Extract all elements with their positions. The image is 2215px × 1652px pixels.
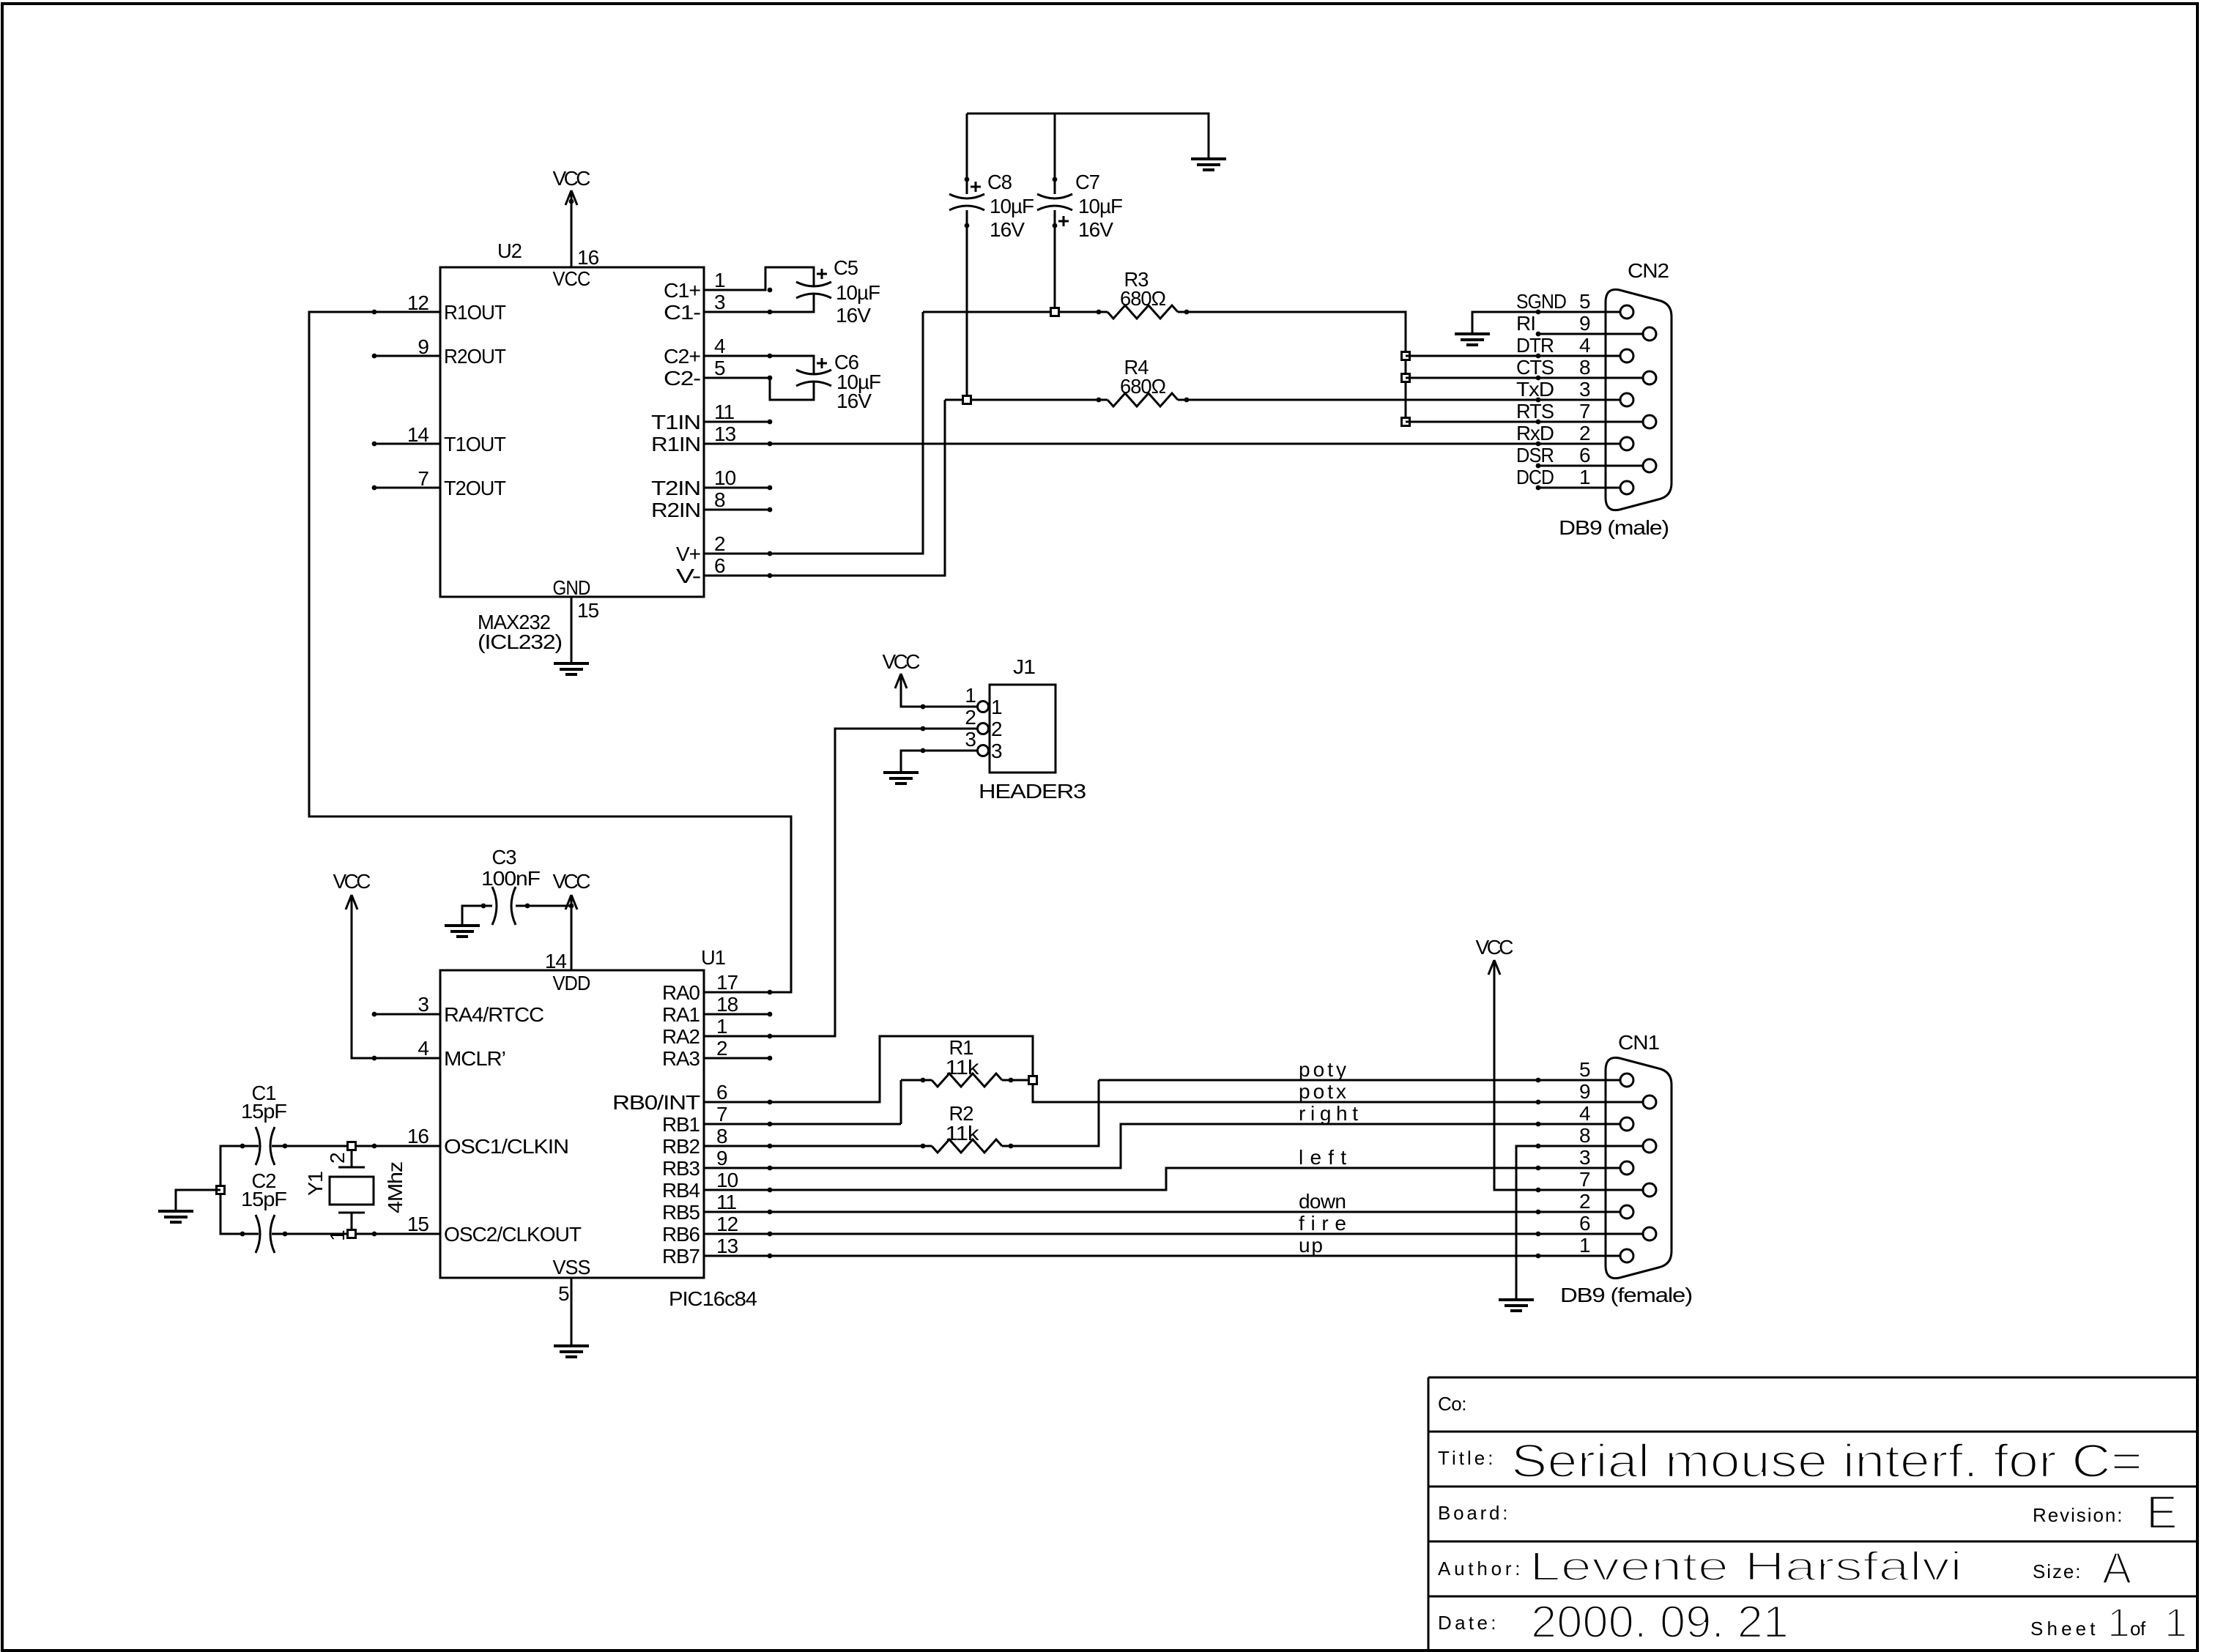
wire RTS	[1406, 421, 1643, 423]
svg-text:14: 14	[545, 950, 567, 972]
wire CN1 pin8 to ground	[1516, 1146, 1643, 1300]
wire VCC to CN1 pin7	[1494, 960, 1643, 1190]
svg-text:VCC: VCC	[553, 267, 591, 290]
svg-text:RxD: RxD	[1516, 422, 1554, 444]
svg-text:1: 1	[326, 1230, 349, 1241]
wire U1 VSS to ground	[571, 1278, 573, 1346]
svg-text:RB7: RB7	[662, 1245, 700, 1268]
svg-text:1: 1	[1579, 466, 1590, 488]
svg-text:5: 5	[1579, 1058, 1590, 1081]
svg-text:12: 12	[407, 291, 429, 314]
CN2 pin circle left column 3	[1620, 437, 1633, 450]
ground at U1 VSS	[554, 1346, 589, 1357]
svg-text:C7: C7	[1075, 171, 1099, 193]
svg-text:poty: poty	[1299, 1058, 1346, 1081]
svg-text:2: 2	[991, 718, 1002, 740]
svg-text:11: 11	[714, 401, 734, 423]
svg-text:17: 17	[716, 971, 738, 994]
wire C1- to C5	[704, 294, 814, 312]
svg-text:5: 5	[714, 357, 725, 379]
wire RB5 down	[704, 1211, 1620, 1213]
svg-text:C2-: C2-	[664, 367, 701, 390]
crystal Y1	[330, 1146, 374, 1234]
wire U2 pin11 T1IN stub	[704, 421, 770, 423]
wire RB6 fire	[704, 1233, 1643, 1235]
svg-text:18: 18	[716, 993, 738, 1016]
svg-text:R1IN: R1IN	[651, 433, 700, 455]
svg-text:GND: GND	[553, 576, 590, 599]
svg-text:11k: 11k	[946, 1122, 980, 1145]
resistor R3	[1107, 305, 1178, 319]
svg-text:PIC16c84: PIC16c84	[669, 1287, 757, 1310]
connector CN1 DB9 female body	[1606, 1057, 1672, 1278]
capacitor C1 plates	[256, 1127, 275, 1165]
wire OSC1 row	[220, 1146, 440, 1190]
wire capacitor C7 vertical	[1054, 114, 1056, 312]
wire RB4 left	[704, 1168, 1620, 1190]
svg-text:RI: RI	[1516, 312, 1535, 335]
svg-text:3: 3	[714, 291, 725, 313]
wire capacitor C8 vertical	[966, 114, 968, 400]
svg-text:U2: U2	[497, 239, 522, 262]
junction R4 row at C8	[963, 396, 971, 404]
wire U1 RA3 stub	[704, 1057, 770, 1060]
svg-text:1: 1	[716, 1015, 727, 1038]
svg-text:16V: 16V	[836, 304, 871, 327]
junction R1 right	[1029, 1076, 1037, 1084]
svg-text:7: 7	[1579, 400, 1590, 423]
svg-text:1: 1	[2164, 1599, 2187, 1645]
svg-text:1: 1	[1579, 1234, 1590, 1257]
svg-text:T1IN: T1IN	[651, 411, 700, 434]
CN2 pin circle right column 0	[1643, 327, 1656, 341]
wire RB3 right	[704, 1124, 1620, 1168]
svg-text:8: 8	[1579, 1124, 1590, 1147]
ground at U2 pin 15	[554, 663, 589, 674]
svg-text:RB0/INT: RB0/INT	[612, 1091, 700, 1114]
ground at CN2 SGND	[1455, 334, 1490, 345]
svg-text:Co:: Co:	[1438, 1393, 1466, 1415]
capacitor C3 plates	[492, 887, 516, 925]
capacitor C7 plates	[1037, 194, 1072, 210]
svg-text:8: 8	[714, 488, 725, 511]
svg-text:TxD: TxD	[1516, 378, 1554, 401]
CN2 pin circle right column 3	[1643, 459, 1656, 472]
connector CN2 DB9 male body	[1606, 289, 1672, 510]
power VCC at CN1	[1476, 936, 1514, 975]
svg-text:1: 1	[714, 269, 725, 291]
svg-text:DB9 (female): DB9 (female)	[1560, 1284, 1692, 1306]
wire U2 pin16 VCC	[571, 190, 573, 267]
wire DSR stub	[1537, 465, 1643, 467]
svg-text:of: of	[2130, 1618, 2146, 1640]
svg-text:15: 15	[577, 599, 599, 622]
svg-text:9: 9	[716, 1147, 727, 1169]
wire SGND to ground	[1472, 312, 1620, 334]
svg-text:A: A	[2102, 1544, 2131, 1593]
svg-text:3: 3	[991, 740, 1002, 762]
wire U1 RA1 stub	[704, 1013, 770, 1016]
power VCC for J1 pin 1	[883, 650, 921, 688]
svg-text:4: 4	[714, 335, 725, 357]
svg-text:14: 14	[407, 423, 429, 446]
svg-text:16V: 16V	[1078, 218, 1113, 241]
svg-text:T1OUT: T1OUT	[444, 433, 506, 455]
wire OSC2 row	[220, 1190, 440, 1234]
svg-text:6: 6	[714, 554, 725, 577]
wire RB7 up	[704, 1255, 1620, 1257]
svg-text:680Ω: 680Ω	[1120, 287, 1165, 310]
svg-text:DTR: DTR	[1516, 334, 1554, 357]
svg-text:DSR: DSR	[1516, 444, 1554, 466]
svg-text:DCD: DCD	[1516, 466, 1554, 488]
wire R3 row	[923, 312, 1406, 422]
svg-text:RA3: RA3	[662, 1047, 700, 1070]
svg-text:C1-: C1-	[664, 301, 701, 324]
svg-text:2: 2	[965, 706, 976, 729]
svg-text:C5: C5	[834, 256, 858, 279]
capacitor C8 plates	[949, 194, 984, 210]
svg-text:Board:: Board:	[1438, 1502, 1507, 1524]
J1 pin circle 2	[978, 723, 989, 734]
wire R1OUT net: U2 pin12 to U1 RA0	[309, 312, 791, 992]
svg-text:VCC: VCC	[883, 650, 921, 673]
svg-text:9: 9	[1579, 1080, 1590, 1103]
CN1 pin circle left column 3	[1620, 1205, 1633, 1218]
svg-text:RB4: RB4	[662, 1179, 700, 1202]
svg-text:2: 2	[716, 1037, 727, 1060]
CN2 pin circle left column 4	[1620, 481, 1633, 494]
ground at CN1 pin 8	[1499, 1300, 1534, 1311]
svg-text:T2OUT: T2OUT	[444, 477, 506, 499]
ground at C3	[445, 926, 480, 937]
svg-text:RB3: RB3	[662, 1157, 700, 1180]
svg-text:VCC: VCC	[553, 167, 591, 190]
svg-text:R1OUT: R1OUT	[444, 301, 506, 324]
wire U1 VDD pin	[571, 895, 573, 970]
svg-text:4: 4	[1579, 1102, 1590, 1125]
svg-text:2: 2	[326, 1153, 349, 1164]
CN1 pin circle left column 4	[1620, 1249, 1633, 1262]
svg-text:V-: V-	[676, 565, 701, 587]
wire J1 pin1 from VCC	[901, 674, 978, 707]
CN1 pin circle left column 2	[1620, 1161, 1633, 1175]
svg-text:7: 7	[716, 1103, 727, 1125]
svg-text:4Mhz: 4Mhz	[384, 1162, 407, 1213]
wire CTS	[1406, 377, 1643, 379]
CN1 pin circle left column 1	[1620, 1117, 1633, 1131]
CN2 pin circle left column 1	[1620, 349, 1633, 362]
svg-text:R2OUT: R2OUT	[444, 345, 506, 368]
junction OSC rows to ground	[217, 1186, 225, 1194]
sheet 1 of 1	[2030, 1599, 2187, 1645]
junction crystal top	[348, 1142, 356, 1150]
wire R1IN to CN2 RxD	[704, 443, 1620, 445]
svg-text:10µF: 10µF	[836, 281, 880, 304]
CN1 pin circle right column 3	[1643, 1227, 1656, 1240]
wire U2 pin14 T1OUT stub	[374, 443, 440, 445]
svg-text:5: 5	[558, 1282, 569, 1305]
svg-text:U1: U1	[701, 946, 725, 969]
svg-text:Levente Harsfalvi: Levente Harsfalvi	[1529, 1543, 1962, 1589]
svg-text:1: 1	[965, 684, 976, 707]
wire J1 pin2 to U1 RA2	[704, 729, 978, 1036]
C8 plus sign	[971, 182, 981, 192]
wire R1 leads	[901, 1080, 1033, 1124]
svg-text:Y1: Y1	[304, 1172, 327, 1196]
svg-text:VCC: VCC	[333, 870, 371, 893]
svg-text:V+: V+	[676, 543, 700, 565]
wire U2 pin7 T2OUT stub	[374, 487, 440, 489]
svg-text:10: 10	[714, 466, 736, 489]
ground at J1 pin 3	[883, 773, 919, 784]
svg-text:10µF: 10µF	[1078, 195, 1122, 217]
svg-text:16: 16	[407, 1125, 429, 1147]
svg-text:CN1: CN1	[1618, 1031, 1659, 1054]
wire RB1 row	[704, 1123, 901, 1125]
IC U1 body (PIC16c84)	[440, 970, 704, 1278]
svg-text:RB1: RB1	[662, 1113, 700, 1136]
svg-text:11k: 11k	[946, 1056, 980, 1079]
svg-text:OSC2/CLKOUT: OSC2/CLKOUT	[444, 1223, 582, 1246]
C6 plus sign	[817, 358, 827, 368]
capacitor C6 plates	[796, 370, 831, 386]
svg-text:Size:: Size:	[2033, 1560, 2080, 1582]
svg-text:RB2: RB2	[662, 1135, 700, 1158]
wire C1+ to C5	[704, 267, 814, 290]
C7 plus sign	[1058, 216, 1069, 226]
svg-text:13: 13	[714, 423, 736, 445]
CN2 pin circle right column 2	[1643, 415, 1656, 428]
svg-text:7: 7	[1579, 1168, 1590, 1191]
svg-text:CN2: CN2	[1628, 259, 1669, 282]
svg-text:10µF: 10µF	[990, 195, 1034, 217]
svg-text:15: 15	[407, 1213, 429, 1235]
svg-text:3: 3	[1579, 378, 1590, 401]
svg-text:4: 4	[1579, 334, 1590, 357]
CN2 pin circle left column 2	[1620, 393, 1633, 406]
svg-text:3: 3	[418, 993, 428, 1016]
svg-text:16V: 16V	[836, 390, 872, 412]
svg-text:8: 8	[716, 1125, 727, 1147]
svg-text:12: 12	[716, 1213, 738, 1235]
wire U2 pin10 T2IN stub	[704, 487, 770, 489]
junction crystal bottom	[348, 1230, 356, 1238]
ground at C1 C2	[158, 1211, 193, 1222]
svg-text:4: 4	[418, 1037, 428, 1060]
resistor R2	[932, 1139, 1002, 1153]
svg-text:Author:: Author:	[1438, 1558, 1520, 1580]
svg-text:RB6: RB6	[662, 1223, 700, 1246]
svg-text:9: 9	[418, 335, 428, 358]
wire DTR	[1406, 355, 1620, 357]
CN1 pin circle right column 1	[1643, 1139, 1656, 1153]
svg-text:VCC: VCC	[1476, 936, 1514, 959]
svg-text:DB9 (male): DB9 (male)	[1559, 516, 1669, 539]
svg-text:C1+: C1+	[664, 279, 700, 302]
wire R4 row TxD	[945, 399, 1620, 401]
junction RTS	[1402, 418, 1410, 426]
svg-text:RB5: RB5	[662, 1201, 700, 1224]
wire J1 pin3 to ground	[901, 751, 978, 773]
svg-text:Serial mouse interf. for C=: Serial mouse interf. for C=	[1511, 1435, 2142, 1487]
svg-text:OSC1/CLKIN: OSC1/CLKIN	[444, 1135, 568, 1158]
svg-text:C8: C8	[987, 171, 1012, 193]
CN2 pin circle left column 0	[1620, 305, 1633, 319]
svg-text:15pF: 15pF	[241, 1100, 286, 1123]
svg-text:1: 1	[991, 696, 1002, 718]
connector J1 HEADER3 body	[990, 685, 1055, 773]
CN1 pin circle right column 0	[1643, 1095, 1656, 1109]
op-amp U2 body (MAX232)	[440, 267, 704, 597]
wire RB2 R2 poty	[704, 1080, 1620, 1146]
svg-text:6: 6	[716, 1081, 727, 1104]
svg-text:2000. 09. 21: 2000. 09. 21	[1531, 1597, 1789, 1648]
C5 plus sign	[817, 269, 827, 279]
svg-text:C3: C3	[492, 846, 516, 868]
title block grid	[1428, 1377, 2197, 1651]
junction CTS	[1402, 374, 1410, 382]
svg-text:HEADER3: HEADER3	[979, 780, 1086, 803]
CN2 pin circle right column 1	[1643, 371, 1656, 384]
wire to crystal ground	[176, 1190, 220, 1211]
svg-text:15pF: 15pF	[241, 1188, 286, 1210]
J1 pin circle 3	[978, 745, 989, 756]
junction R3 row at C7	[1051, 308, 1059, 316]
svg-text:16: 16	[577, 246, 599, 269]
svg-text:7: 7	[418, 467, 428, 490]
svg-text:100nF: 100nF	[481, 867, 540, 890]
wire U1 RA4 stub	[374, 1013, 440, 1016]
J1 pin circle 1	[978, 702, 989, 712]
svg-text:6: 6	[1579, 444, 1590, 466]
svg-text:10: 10	[716, 1169, 738, 1191]
svg-text:VDD: VDD	[553, 972, 590, 994]
resistor R1	[932, 1074, 1002, 1087]
wire U2 pin8 R2IN stub	[704, 509, 770, 511]
power VCC for U2 pin 16	[553, 167, 591, 205]
svg-text:5: 5	[1579, 290, 1590, 313]
svg-text:CTS: CTS	[1516, 356, 1554, 379]
svg-text:T2IN: T2IN	[651, 477, 700, 499]
svg-text:11: 11	[716, 1191, 736, 1213]
capacitor C2 plates	[256, 1215, 275, 1253]
svg-text:R2IN: R2IN	[651, 499, 700, 521]
svg-text:SGND: SGND	[1516, 290, 1566, 313]
svg-text:2: 2	[1579, 422, 1590, 444]
svg-text:8: 8	[1579, 356, 1590, 379]
wire C2+ to C6	[704, 356, 814, 373]
wire V+ to R3 row	[704, 312, 923, 554]
CN1 pin circle left column 0	[1620, 1074, 1633, 1087]
svg-text:VCC: VCC	[553, 870, 591, 893]
svg-text:potx: potx	[1299, 1080, 1346, 1103]
svg-text:E: E	[2146, 1486, 2178, 1538]
svg-text:2: 2	[714, 532, 725, 555]
wire RB0 net with loop over R1	[704, 1036, 1643, 1102]
svg-text:RA1: RA1	[662, 1003, 700, 1026]
svg-text:down: down	[1299, 1190, 1346, 1213]
wire top rail C8 C7 to ground	[967, 114, 1209, 159]
svg-text:VSS: VSS	[553, 1256, 590, 1279]
resistor R4	[1107, 393, 1178, 406]
svg-text:16V: 16V	[990, 218, 1025, 241]
svg-text:3: 3	[1579, 1146, 1590, 1169]
svg-text:1: 1	[2107, 1599, 2130, 1645]
wire U2 pin15 GND	[571, 597, 573, 663]
svg-text:RA0: RA0	[662, 981, 700, 1004]
svg-text:RTS: RTS	[1516, 400, 1554, 423]
svg-text:3: 3	[965, 728, 976, 751]
svg-text:RA4/RTCC: RA4/RTCC	[444, 1003, 544, 1026]
svg-text:C2+: C2+	[664, 345, 700, 368]
wire RI stub	[1537, 333, 1643, 335]
svg-text:680Ω: 680Ω	[1120, 375, 1165, 398]
ground at top rail	[1191, 159, 1226, 170]
svg-text:6: 6	[1579, 1212, 1590, 1235]
wire U2 pin9 R2OUT stub	[374, 355, 440, 357]
wire C3 net	[462, 906, 571, 926]
capacitor C5 plates	[796, 282, 831, 298]
wire V- to R4 row	[704, 400, 945, 576]
svg-text:J1: J1	[1013, 655, 1035, 678]
svg-text:2: 2	[1579, 1190, 1590, 1213]
svg-text:(ICL232): (ICL232)	[478, 630, 562, 653]
svg-text:MCLR’: MCLR’	[444, 1047, 505, 1070]
wire MCLR to VCC	[352, 895, 440, 1058]
svg-text:9: 9	[1579, 312, 1590, 335]
svg-text:13: 13	[716, 1235, 738, 1257]
junction DTR	[1402, 352, 1410, 360]
wire DCD stub	[1537, 487, 1620, 489]
power VCC at U1 VDD	[553, 870, 591, 909]
wire C2- to C6	[704, 378, 814, 400]
svg-text:RA2: RA2	[662, 1025, 700, 1048]
CN1 pin circle right column 2	[1643, 1183, 1656, 1197]
power VCC at U1 MCLR	[333, 870, 371, 909]
